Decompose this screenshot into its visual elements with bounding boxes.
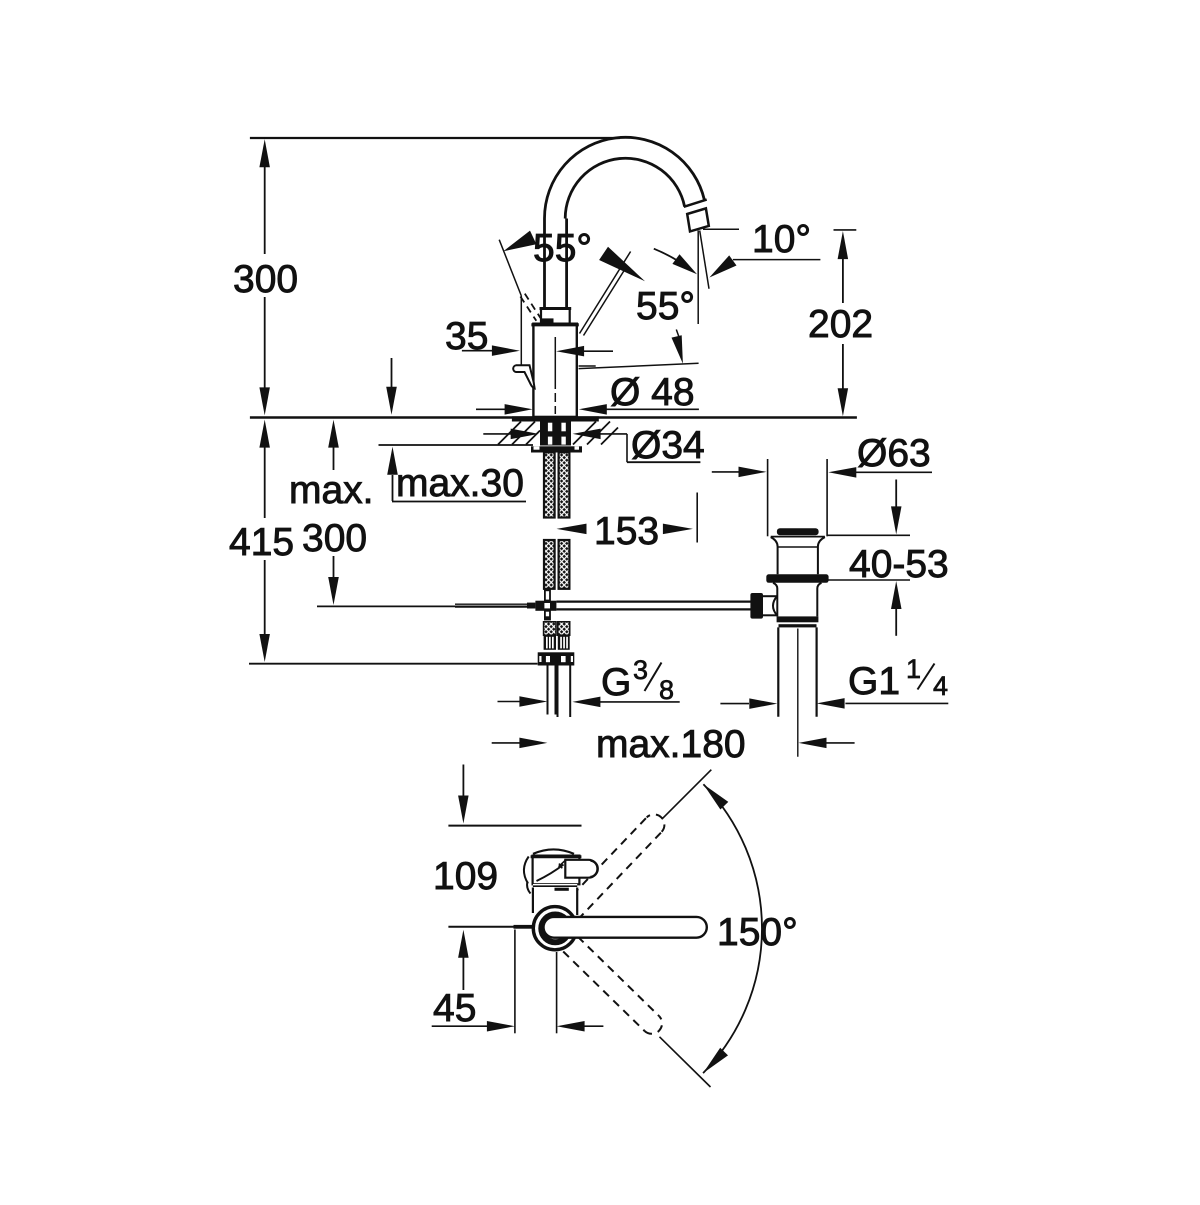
svg-text:45: 45: [433, 987, 476, 1030]
Ø63 extension lines: [767, 459, 769, 536]
svg-text:max.: max.: [289, 469, 374, 512]
svg-text:153: 153: [594, 510, 659, 553]
thread section left: [544, 635, 556, 650]
svg-text:10°: 10°: [752, 218, 811, 261]
braided hose lower right: [559, 540, 570, 589]
svg-text:415: 415: [229, 521, 294, 564]
svg-text:55°: 55°: [533, 227, 592, 270]
svg-text:max.30: max.30: [396, 462, 524, 505]
Ø34 underline shelf: [627, 461, 700, 463]
Ø34 leader corner: [626, 434, 628, 462]
max.300 bottom reference line: [317, 605, 527, 607]
hose end fitting right braid: [558, 622, 570, 635]
55 deg leader arrow down: [676, 330, 679, 337]
handle ghost right line: [580, 252, 631, 334]
Ø63 dimension row: [712, 471, 741, 473]
braided hose upper right: [559, 452, 570, 517]
handle lever: [513, 365, 534, 388]
max.30 upper arrow: [391, 358, 393, 387]
153 extension line: [696, 493, 698, 543]
max.30 lower arrow: [387, 447, 398, 475]
drain rim line: [771, 536, 825, 538]
cartridge cap: [541, 309, 570, 324]
aerator cap: [687, 208, 709, 231]
spout arm ghost lower (dashed): [563, 952, 644, 1032]
spout arc inner: [565, 158, 684, 218]
lower extension line: [660, 1037, 711, 1087]
109 bottom reference line: [448, 926, 514, 928]
aerator vertical reference line: [697, 231, 699, 325]
valve base sides: [533, 884, 577, 916]
drain O-ring band: [766, 574, 828, 583]
55 deg spout arc: [654, 249, 689, 269]
swivel ring outer: [533, 907, 576, 950]
svg-text:150°: 150°: [717, 911, 798, 954]
handle ghost left solid: [499, 240, 521, 296]
55 deg angle arrow left: [503, 231, 536, 252]
valve cap rect: [533, 856, 580, 885]
counter hatching right: [573, 422, 596, 445]
horizontal pop-up rod: [556, 600, 750, 602]
thread section right: [558, 635, 570, 650]
10 deg top stub line: [703, 228, 739, 230]
150 deg swivel arc: [703, 784, 762, 1073]
left bulge arcs: [524, 857, 529, 884]
braided hose lower left: [544, 540, 555, 589]
10 deg shelf line: [733, 259, 821, 261]
svg-text:202: 202: [808, 303, 873, 346]
cap inner dashes: [559, 859, 567, 866]
tailpipe centerline: [797, 629, 799, 757]
svg-text:300: 300: [302, 517, 367, 560]
spout arc outer: [544, 137, 704, 218]
svg-text:G1: G1: [848, 660, 900, 703]
svg-text:4: 4: [933, 671, 948, 701]
drain side port: [750, 593, 763, 619]
svg-text:Ø 48: Ø 48: [610, 371, 695, 414]
handle connector: [565, 860, 597, 878]
40-53 dimension: [895, 480, 897, 508]
pop-up rod upper stub: [545, 590, 550, 600]
upper extension line: [662, 770, 712, 820]
109 upper arrow line: [462, 765, 464, 797]
svg-text:300: 300: [233, 258, 298, 301]
dimension 415 vertical line: [264, 447, 266, 518]
109 top reference line: [448, 825, 581, 827]
45 extension line center: [556, 952, 558, 1033]
spout arm (solid): [544, 917, 707, 938]
dimension 202 top tick: [834, 229, 857, 231]
40-53 top shelf: [827, 534, 910, 536]
braided hose upper left: [544, 452, 555, 517]
arc arrowhead top: [703, 784, 728, 809]
rod clamp: [527, 603, 535, 609]
handle ghost left dashed: [520, 297, 536, 321]
hose end fitting left braid: [544, 622, 556, 635]
countertop line: [250, 416, 857, 418]
swivel ring inner: [541, 915, 569, 943]
45 dimension row: [432, 1025, 488, 1027]
faucet body: [533, 324, 576, 417]
55 deg angle arrow right: [599, 247, 645, 282]
dimension 300 vertical line: [264, 167, 266, 254]
pop-up rod lower stub: [545, 611, 550, 620]
max.180 dimension row: [492, 742, 521, 744]
aerator 10deg flow line: [700, 231, 709, 289]
35 extension line: [520, 296, 522, 366]
arc arrowhead bottom: [703, 1048, 728, 1073]
Ø48 leader line (handle down ghost): [579, 363, 699, 368]
valve joint tick: [555, 888, 569, 891]
spout left leg inner: [565, 219, 568, 309]
threaded shank: [540, 422, 571, 446]
10 deg leader arrow: [709, 255, 736, 277]
svg-text:Ø34: Ø34: [631, 424, 705, 467]
drain lower band: [777, 616, 819, 622]
top reference line (300 dim): [250, 137, 620, 139]
dimension 202 line: [842, 259, 844, 303]
40-53 bottom shelf: [828, 579, 910, 581]
base flange plate: [512, 416, 599, 421]
svg-text:35: 35: [445, 315, 488, 358]
valve dome arc: [533, 849, 574, 853]
svg-text:1: 1: [906, 654, 921, 684]
side stub bar: [514, 925, 534, 929]
415 bottom reference line: [249, 663, 538, 665]
45 extension line left: [514, 930, 516, 1034]
drain knob: [777, 528, 819, 535]
G1 1/4 dimension row: [720, 703, 749, 705]
svg-text:8: 8: [659, 675, 674, 705]
drain tailpipe: [777, 627, 779, 716]
spout arm ghost upper (dashed): [578, 832, 662, 920]
supply pipes: [547, 666, 549, 715]
svg-text:G: G: [601, 661, 631, 704]
Ø48 dimension row: [476, 408, 506, 410]
mounting nut: [531, 446, 582, 452]
svg-text:3: 3: [633, 655, 648, 685]
Ø34 dimension row: [483, 433, 512, 435]
valve joint line: [533, 885, 577, 887]
svg-text:max.180: max.180: [596, 723, 746, 766]
cap inner dome curve: [537, 865, 564, 882]
spout tube end line: [684, 200, 707, 207]
svg-text:55°: 55°: [636, 285, 695, 328]
G3/8 connection nut: [538, 652, 575, 665]
svg-text:Ø63: Ø63: [857, 432, 931, 475]
drain body below band: [773, 583, 777, 617]
153 dimension arrows: [557, 524, 587, 535]
body centerline: [554, 337, 556, 414]
cap black detail: [542, 318, 554, 323]
counter underside line: [379, 444, 534, 446]
max.30 shelf: [392, 501, 526, 503]
spout left leg outer: [543, 219, 546, 309]
drain flare: [771, 537, 778, 574]
35 dimension row: [462, 350, 492, 352]
G3/8 dimension row: [498, 701, 521, 703]
109 lower arrow: [458, 930, 469, 958]
dimension max.300 vertical line: [333, 447, 335, 470]
svg-text:109: 109: [433, 855, 498, 898]
counter hatching left: [498, 422, 521, 445]
